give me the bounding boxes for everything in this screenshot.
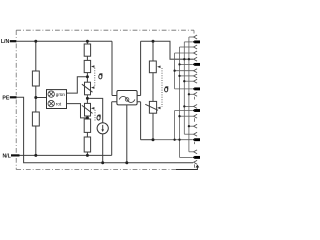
svg-text:L/N: L/N	[1, 39, 10, 45]
svg-text:PE: PE	[2, 95, 9, 101]
svg-text:grün: grün	[56, 92, 66, 97]
svg-text:rot: rot	[56, 101, 62, 106]
svg-text:N/L: N/L	[2, 153, 11, 159]
